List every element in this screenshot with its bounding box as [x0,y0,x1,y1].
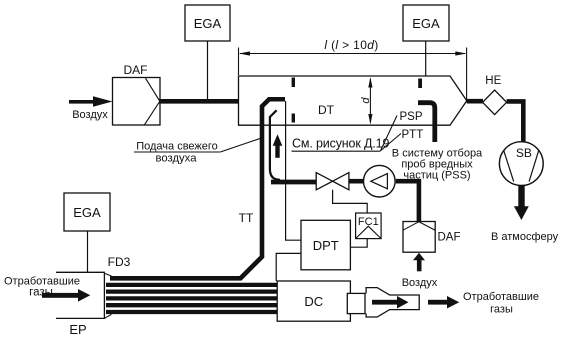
dilution air filter DAF (top left) [113,63,161,125]
wire EGA3 to exhaust pipe EP [87,231,89,272]
svg-text:DAF: DAF [124,63,148,77]
svg-text:d: d [360,97,372,104]
wire tunnel exit to heat exchanger [467,99,483,104]
leader lines to PSP / PTT [381,116,402,151]
svg-text:TT: TT [239,211,254,225]
svg-text:SB: SB [516,146,532,160]
svg-text:EGA: EGA [73,205,101,220]
control valve [316,173,349,190]
damper control DC [277,281,350,321]
fresh air up arrow inside channel [273,134,283,158]
svg-text:газы: газы [490,304,513,316]
svg-text:EGA: EGA [194,16,222,31]
analyzer box EGA (top right) [403,5,449,41]
svg-text:EGA: EGA [412,16,440,31]
svg-text:EP: EP [69,322,86,337]
wire EGA1 to dilution air line [207,41,209,99]
wire pump to DAF2 [396,181,419,221]
air inlet arrow [69,96,113,121]
chamfers EP to tube bundle [104,273,111,318]
dimension d (tunnel diameter) [360,77,373,125]
svg-text:газы: газы [29,286,53,298]
label: to particulate sampling system PSS [392,148,483,182]
wire DPT to DC [276,253,301,281]
wire FC1 to DPT [350,239,367,248]
svg-text:PSP: PSP [400,111,423,123]
svg-text:См. рисунок Д.19: См. рисунок Д.19 [292,136,389,150]
wire dilution air line DAF to tunnel [159,99,239,104]
svg-text:частиц (PSS): частиц (PSS) [403,170,470,182]
dashed station mark (sampling point) [418,79,422,89]
dimension line l (l > 10d) [239,38,467,103]
svg-text:DT: DT [318,103,335,117]
svg-text:FC1: FC1 [358,216,379,228]
flow arrow inside venturi [372,296,409,309]
note: see figure D.19 [292,136,390,151]
outlet stub from DC [347,293,365,313]
TT inner wall [270,110,280,180]
exhaust outlet arrow [428,296,459,309]
dashed station mark (mixing point) [292,78,295,88]
svg-text:PTT: PTT [402,129,424,141]
svg-text:HE: HE [485,75,501,87]
svg-text:DPT: DPT [313,238,339,253]
wire EGA2 to tunnel [425,41,427,76]
svg-text:DC: DC [304,294,323,309]
exhaust to atmosphere arrow [514,185,529,220]
svg-text:Отработавшие: Отработавшие [463,291,539,303]
transfer tube TT (thick pipe from FD3 into tunnel) [110,99,285,278]
svg-text:воздуха: воздуха [155,153,197,165]
exhaust pipe EP (open left) [56,272,104,318]
svg-text:В атмосферу: В атмосферу [491,231,559,243]
svg-text:DAF: DAF [438,232,461,244]
flow controller FC1 [356,213,382,239]
svg-text:Воздух: Воздух [72,109,108,121]
dilution tunnel DT body [239,76,467,125]
exhaust gas inlet arrow [42,289,90,302]
svg-text:Подача свежего: Подача свежего [136,141,218,153]
wire valve to flow controller FC1 [333,190,368,213]
wire fresh air line (channel to valve) [271,180,317,185]
analyzer box EGA (bottom left) [64,193,110,231]
suction blower SB [499,142,543,186]
analyzer box EGA (top left) [185,5,230,41]
dilution air filter DAF (bottom) [403,222,461,253]
svg-text:l (l > 10d): l (l > 10d) [324,38,378,52]
particulate sampling probe PSP + transfer tube PTT [418,103,435,142]
svg-text:Воздух: Воздух [402,277,438,289]
heat exchanger HE [483,75,507,115]
air arrow into DAF2 [413,253,425,271]
svg-text:FD3: FD3 [108,255,131,269]
venturi / exhaust outlet [366,288,419,317]
wire HE to suction blower SB [507,101,524,141]
differential pressure transducer DPT [301,220,350,269]
pump (blower) [364,165,396,197]
heated sampling tube bundle (5 lines to DC) [106,285,277,312]
wire valve to pump [349,179,364,184]
pressure tap line (TT outlet to DPT) [286,101,301,240]
label: fresh air supply [134,138,262,165]
